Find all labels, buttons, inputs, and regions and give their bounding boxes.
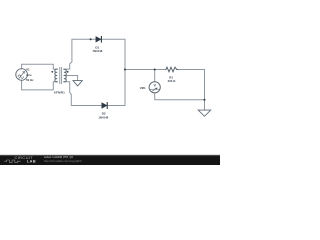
node dot on D1 anode wire	[90, 38, 92, 40]
ground bottom right	[198, 110, 211, 116]
wire V1 bottom loop	[22, 80, 58, 90]
svg-text:VM1: VM1	[140, 86, 146, 90]
voltmeter VM1	[149, 82, 160, 93]
resistor R1	[166, 67, 178, 72]
wire VM1 top branch	[154, 70, 156, 82]
wire V1 top loop	[22, 64, 58, 69]
svg-text:1N4148: 1N4148	[92, 49, 102, 53]
logo squarewave	[4, 160, 20, 162]
diode D1	[96, 37, 101, 42]
wire D1 cathode to output rail	[101, 39, 125, 69]
wire secondary top riser to D1	[64, 39, 96, 69]
svg-text:XFMR1: XFMR1	[54, 90, 65, 94]
wire center tap to ground	[64, 76, 78, 81]
ground near transformer	[73, 81, 82, 86]
node VM1 top junction	[154, 68, 156, 70]
wire output row to R1	[125, 69, 166, 71]
svg-text:http://circuitlab.com/c/pyq9h3: http://circuitlab.com/c/pyq9h3	[44, 159, 82, 163]
svg-text:LAB: LAB	[27, 160, 36, 164]
wire VM1 bottom to ground node	[155, 93, 205, 100]
wire R1 right to right rail down	[178, 70, 205, 100]
svg-text:50 Hz: 50 Hz	[26, 78, 34, 82]
svg-text:220 Ω: 220 Ω	[168, 79, 176, 83]
voltage source V1	[16, 69, 28, 81]
svg-text:1N4148: 1N4148	[98, 116, 108, 120]
wire secondary bottom riser to D2	[64, 82, 102, 106]
wire ground stub right	[204, 100, 206, 110]
diode D2	[102, 103, 107, 108]
wire D2 cathode to output rail	[107, 70, 125, 106]
node ground junction	[203, 99, 205, 101]
svg-text:sine: sine	[26, 73, 32, 77]
node output rail junction	[124, 68, 126, 70]
transformer XFMR1	[55, 69, 57, 82]
svg-text:V1: V1	[26, 68, 30, 72]
